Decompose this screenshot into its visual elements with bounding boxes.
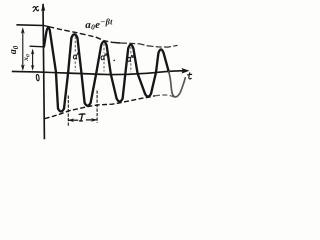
svg-text:a0: a0	[8, 45, 20, 54]
label a''	[101, 54, 106, 60]
upper envelope dashed curve right part (lighter)	[120, 43, 178, 47]
label T	[79, 114, 85, 121]
period T arrowhead left	[68, 118, 74, 122]
label a0 (rotated)	[8, 45, 20, 54]
t-axis arrowhead	[182, 68, 190, 74]
ink speck	[113, 60, 115, 62]
amplitude dashed line in peak 4	[130, 47, 132, 72]
period T arrowhead right	[91, 118, 97, 122]
label t	[188, 73, 192, 79]
damped oscillation curve	[44, 28, 169, 112]
x-axis arrowhead	[41, 3, 45, 12]
vertical x-axis	[43, 4, 44, 139]
period T arrow right segment	[86, 119, 97, 121]
label a'	[73, 53, 77, 59]
amplitude dashed line in peak 2	[74, 37, 76, 71]
lower envelope faded right end	[155, 95, 176, 98]
period marker right dashed vertical	[96, 91, 98, 123]
a0 arrowhead down	[21, 64, 25, 71]
label a'''	[128, 55, 135, 61]
x0 arrowhead down	[31, 65, 34, 71]
x0 arrowhead up	[31, 49, 34, 55]
a0 arrowhead up	[21, 27, 25, 34]
upper envelope dashed curve	[44, 26, 120, 44]
amplitude dashed line in peak 3	[103, 44, 105, 72]
horizontal t-axis	[12, 71, 187, 75]
a0 dimension arrow line	[22, 30, 24, 70]
x0 level cap line	[30, 45, 44, 48]
label 0 (origin)	[36, 74, 39, 81]
label x0 (rotated)	[21, 54, 32, 62]
svg-text:a0e−βt: a0e−βt	[85, 17, 113, 31]
label x	[33, 7, 39, 12]
curve tail (faded in scan)	[169, 72, 186, 97]
period marker left dashed vertical	[67, 96, 69, 128]
lower envelope dashed curve	[45, 96, 155, 119]
period T arrow left segment	[69, 119, 79, 121]
a0 level cap line	[16, 24, 44, 27]
x0 dimension arrow line	[32, 51, 34, 69]
